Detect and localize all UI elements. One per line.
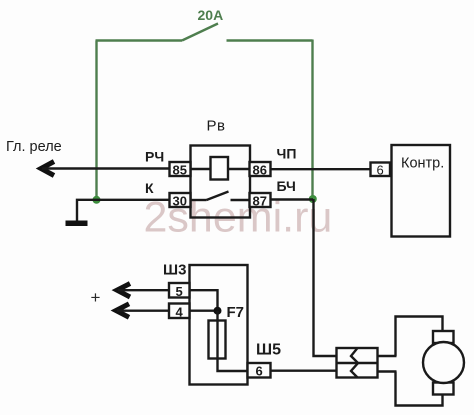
node: green junction on BCh wire [309,195,317,203]
wire ChP: pin 86 to Kontr pin 6 [271,168,371,170]
svg-text:ЧП: ЧП [277,146,297,162]
wire pin5 to arrow [118,289,169,291]
wire: pin 6 Sh5 to suppressor [271,370,337,372]
relay contact blade [207,192,229,201]
wire: motor loop upper [396,317,443,357]
suppressor zigzag element [351,348,358,378]
wire BCh: pin 87 to green node [271,198,314,200]
node: junction at F7 [214,307,222,315]
relay coil wire left [191,168,211,170]
pin 6 Sh5 [248,363,271,379]
relay contact wire right [231,199,250,201]
svg-text:+: + [91,288,101,307]
motor M [423,342,464,383]
svg-text:БЧ: БЧ [277,178,296,194]
wire RCh: arrow to pin 85 [42,167,170,169]
wire: suppressor upper right stub [378,355,397,357]
svg-text:Гл. реле: Гл. реле [6,139,62,155]
relay contact wire left [191,199,207,201]
svg-text:4: 4 [176,305,184,320]
wire: motor loop lower [396,372,443,406]
arrow from pin 4 [116,304,129,318]
wire: node BCh down to suppressor [314,199,337,356]
svg-text:Рв: Рв [207,118,226,135]
wire pin4 to arrow [117,310,169,312]
svg-text:6: 6 [377,163,384,178]
ground (chassis) [66,221,88,227]
pin 87 [250,193,271,209]
arrow to main relay [41,162,54,176]
svg-text:20А: 20А [198,7,224,23]
instrument cluster Kontr. [392,145,451,237]
pin 86 [250,162,271,178]
wire: suppressor lower right stub [378,370,397,372]
svg-text:РЧ: РЧ [145,149,164,165]
wire: green top horizontal right segment [227,39,313,41]
relay Pv body [191,146,251,218]
svg-text:30: 30 [173,194,187,209]
Kontr pin 6 [371,163,391,178]
svg-text:87: 87 [253,194,267,209]
arrow from pin 5 [117,284,130,298]
pin 5 [169,283,190,299]
fuse/switch F 20A blade [182,24,218,41]
motor brush top [433,331,454,343]
svg-text:5: 5 [176,284,183,299]
wire: junction through fuse to pin 6 [218,311,248,371]
svg-text:К: К [145,180,154,196]
svg-text:Ш5: Ш5 [256,342,281,359]
wire: pin 5 internal to fuse junction [190,290,218,311]
svg-text:85: 85 [173,163,187,178]
svg-text:86: 86 [253,163,267,178]
pin 30 [170,193,191,209]
fuse F7 [209,321,226,359]
svg-text:Контр.: Контр. [401,156,444,172]
relay coil wire right [228,168,250,170]
wire: green feed left vertical (node K to fuse) [95,41,97,200]
pin 4 [169,304,190,320]
svg-text:F7: F7 [227,304,245,321]
suppressor divider [337,362,378,364]
node: green junction on K wire [93,196,101,204]
motor brush bottom [433,383,454,395]
wire: green right vertical down to node BCh [311,40,313,200]
connector block Sh3 body [190,265,248,385]
wire K: ground corner to pin 30 [77,200,170,222]
svg-text:6: 6 [256,364,263,379]
relay coil [211,157,229,180]
suppressor filter box [337,348,378,378]
pin 85 [170,162,191,178]
wire: green top horizontal left segment [96,39,183,41]
svg-text:Ш3: Ш3 [163,262,186,279]
wire: pin 4 internal [190,310,218,312]
